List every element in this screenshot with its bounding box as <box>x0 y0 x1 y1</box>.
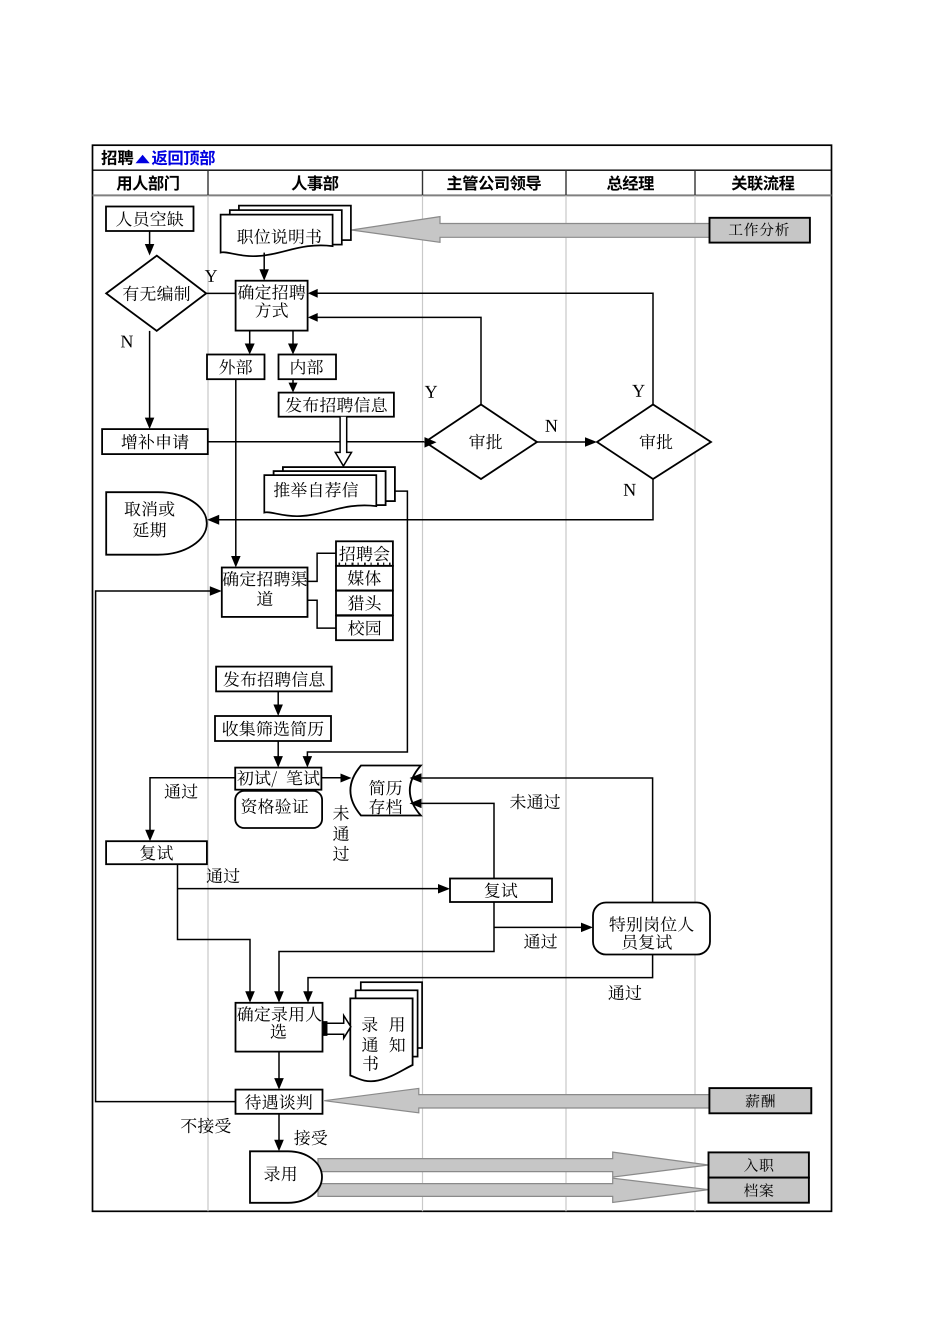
wire 审批1 N to 审批2 <box>537 441 586 443</box>
text 猎头 <box>348 595 381 610</box>
label 过 vertical <box>333 846 349 861</box>
document 推举自荐信 front page <box>264 475 376 516</box>
process box 确定录用人选 <box>236 1003 323 1052</box>
document 职位说明书 front page <box>221 215 333 257</box>
wire 有无编制 N to 增补申请 <box>149 331 151 419</box>
text 人员空缺 <box>116 211 183 227</box>
text 校园 <box>348 620 381 636</box>
decision diamond 审批 second <box>597 405 711 480</box>
text 媒体 <box>348 570 381 586</box>
wire 审批2 Y up and left to 确定招聘方式 <box>316 293 653 404</box>
wire 初试/笔试 to 简历存档 <box>321 777 341 779</box>
wire 职位说明书 to 确定招聘方式 <box>263 253 265 271</box>
channel box 媒体 <box>336 566 393 591</box>
arrowhead into 确定招聘方式 top <box>259 269 269 281</box>
wire 增补申请 to 审批1 <box>208 441 424 443</box>
wire 复试2 未通过 up to 简历存档 <box>420 803 494 878</box>
label N 3 <box>624 484 636 496</box>
text 初试/笔试 <box>237 770 319 787</box>
text 档案 <box>744 1183 773 1197</box>
decision diamond 审批 first <box>425 405 537 480</box>
arrowhead into 发布招聘信息 upper top <box>289 383 298 393</box>
text 方式 <box>255 302 287 318</box>
process box 增补申请 <box>102 429 208 454</box>
wire 有无编制 Y to 确定招聘方式 <box>206 292 235 294</box>
document stack 职位说明书 back page 1 <box>230 210 342 245</box>
gray box 薪酬 <box>709 1088 811 1113</box>
wire 复试2 通过 branch to 特别岗位人员复试 <box>494 926 582 928</box>
label N 1 <box>121 336 133 348</box>
text 录用通知书 char 通 <box>362 1037 378 1052</box>
process box 收集筛选简历 <box>215 716 331 741</box>
process box 外部 <box>207 355 265 380</box>
document stack 录用通知书 back page 1 <box>356 990 418 1056</box>
gray block arrow from 录用 to 档案 <box>318 1178 708 1202</box>
title text 招聘 <box>101 150 133 165</box>
arrowhead into 确定招聘方式 right edge upper <box>308 289 318 298</box>
gray box 入职 <box>709 1152 809 1177</box>
text 审批 first <box>469 434 502 450</box>
arrowhead into 确定录用人选 top 3 <box>303 991 313 1003</box>
process box 内部 <box>279 355 337 380</box>
delay shape 取消或延期 <box>106 492 207 555</box>
text 确定录用人 <box>237 1006 321 1022</box>
text 资格验证 <box>241 798 308 814</box>
channel box 校园 <box>336 616 393 641</box>
delay shape 录用 <box>250 1151 322 1203</box>
text 录用 <box>264 1166 296 1181</box>
text 简历 <box>369 780 402 796</box>
gray block arrow from 录用 to 入职 <box>318 1152 708 1177</box>
arrowhead into 取消或延期 right <box>207 515 219 525</box>
arrowhead into 待遇谈判 top <box>274 1078 284 1090</box>
document stack 推举自荐信 back page 1 <box>274 471 386 505</box>
arrowhead into 简历存档 right lower <box>410 799 422 809</box>
text 确定招聘渠 <box>223 571 307 587</box>
text 招聘会 <box>339 546 389 562</box>
text 取消或 <box>125 501 175 516</box>
arrowhead into 有无编制 top <box>145 244 155 256</box>
text 推举自荐信 <box>274 482 358 498</box>
stored-data shape 简历存档 <box>350 766 420 816</box>
label Y 3 <box>632 385 644 397</box>
process box 发布招聘信息 lower <box>216 667 332 692</box>
text 待遇谈判 <box>245 1094 312 1110</box>
arrowhead into 增补申请 top <box>145 418 155 430</box>
gray block arrow from 工作分析 to 职位说明书 <box>352 217 710 243</box>
label 通过 1 <box>165 784 198 799</box>
text 录用通知书 char 书 <box>363 1056 378 1072</box>
document stack 职位说明书 back page 2 <box>239 206 351 241</box>
label Y 2 <box>425 386 437 398</box>
arrowhead into 简历存档 left <box>341 774 352 783</box>
blue triangle link marker <box>136 155 150 164</box>
arrowhead into 简历存档 right upper <box>410 773 422 783</box>
text 发布招聘信息 lower <box>223 671 324 687</box>
gray block arrow from 薪酬 to 待遇谈判 <box>324 1088 709 1112</box>
label 通 vertical <box>333 826 349 841</box>
hollow arrow 确定录用人选 to 录用通知书 <box>323 1016 351 1039</box>
wire 特别岗位人员复试 通过 down to 确定录用人选 <box>308 955 653 994</box>
process box 确定招聘方式 <box>236 281 308 331</box>
text 录用通知书 char 录 <box>362 1017 377 1032</box>
header 关联流程 <box>732 175 795 191</box>
wire 发布招聘信息 lower to 收集筛选简历 <box>277 691 279 706</box>
text 增补申请 <box>122 434 189 450</box>
wire 确定录用人选 to 待遇谈判 <box>278 1052 280 1080</box>
wire 人员空缺 to 有无编制 <box>149 231 151 245</box>
text 有无编制 <box>123 286 190 302</box>
rounded box 资格验证 <box>235 791 322 828</box>
arrowhead into 特别岗位人员复试 left <box>581 923 593 933</box>
process box 人员空缺 <box>106 207 194 232</box>
arrowhead into 确定招聘渠道 top <box>231 556 241 568</box>
text 收集筛选简历 <box>223 721 324 737</box>
text 入职 <box>744 1158 773 1172</box>
arrowhead into 初试/笔试 top right <box>303 756 313 768</box>
header 主管公司领导 <box>447 175 541 191</box>
text 道 <box>257 591 273 606</box>
text 发布招聘信息 upper <box>286 397 387 413</box>
process box 初试/笔试 <box>235 768 321 790</box>
text 复试 left <box>140 845 173 860</box>
wire 确定招聘方式 to 内部 <box>292 331 294 345</box>
label 接受 <box>294 1130 327 1146</box>
rounded box 特别岗位人员复试 <box>593 903 710 955</box>
text 外部 <box>219 359 252 375</box>
wire bracket 确定招聘渠道 to 招聘会 <box>308 553 337 581</box>
header cell divider 3 <box>565 170 567 195</box>
header row bottom border <box>93 194 832 196</box>
wire 复试2 down to 确定录用人选 <box>279 902 494 993</box>
decision diamond 有无编制 <box>106 256 206 331</box>
wire 初试/笔试 通过 left down to 复试 <box>150 778 235 831</box>
title row bottom border <box>93 169 832 171</box>
gray box 工作分析 <box>710 218 810 243</box>
label 不接受 <box>181 1118 231 1134</box>
link text 返回顶部 <box>152 150 215 165</box>
arrowhead into 确定录用人选 top 2 <box>274 991 284 1003</box>
header cell divider 1 <box>207 170 209 195</box>
hollow arrow tail bar <box>323 1021 328 1035</box>
process box 发布招聘信息 upper <box>279 393 394 417</box>
wire 内部 to 发布招聘信息 upper <box>292 379 294 383</box>
arrowhead into 内部 top <box>288 344 298 355</box>
arrowhead into 审批1 left vertex <box>425 437 437 448</box>
arrowhead into 收集筛选简历 top <box>273 705 283 717</box>
label 通过 4 <box>608 985 641 1000</box>
text 审批 second <box>640 434 673 450</box>
label Y 1 <box>205 270 217 282</box>
text 延期 <box>133 522 166 537</box>
swimlane divider 4 <box>694 195 696 1211</box>
wire 复试 通过 branch to 复试2 <box>178 888 440 890</box>
label 通过 3 <box>524 934 557 949</box>
table outer border <box>93 145 832 1211</box>
text 存档 <box>369 799 402 815</box>
text 选 <box>271 1024 287 1039</box>
document stack 推举自荐信 back page 2 <box>283 467 395 501</box>
text 工作分析 <box>729 223 789 237</box>
text 员复试 <box>622 934 672 949</box>
text 内部 <box>291 359 323 375</box>
wire 特别岗位人员复试 未通过 up to 简历存档 <box>420 778 653 903</box>
wire 推举自荐信 right to down to 初试/笔试 <box>307 491 407 757</box>
wire 审批2 N down and left to 取消或延期 <box>218 479 653 520</box>
text 薪酬 <box>746 1094 775 1108</box>
swimlane divider 2 <box>422 195 424 1211</box>
text 职位说明书 <box>237 229 321 245</box>
gray box 档案 <box>709 1178 809 1203</box>
header 总经理 <box>607 175 654 190</box>
document stack 录用通知书 back page 2 <box>361 982 422 1048</box>
label 未通过 horizontal <box>510 794 560 809</box>
process box 待遇谈判 <box>236 1090 323 1114</box>
wire 待遇谈判 接受 to 录用 <box>278 1114 280 1142</box>
process box 复试 left <box>106 841 207 864</box>
wire bracket 确定招聘渠道 to 校园 <box>308 600 337 628</box>
text 特别岗位人 <box>609 916 693 932</box>
header cell divider 2 <box>422 170 424 195</box>
wire 外部 down to 确定招聘渠道 <box>235 379 237 557</box>
swimlane divider 3 <box>565 195 567 1211</box>
arrowhead into 确定招聘渠道 left <box>210 586 222 596</box>
wire 待遇谈判 不接受 left up to 确定招聘渠道 <box>96 591 236 1102</box>
process box 复试 middle <box>450 879 552 903</box>
arrowhead into 确定录用人选 top 1 <box>245 991 255 1003</box>
wire 复试 down right to 复试2 and 确定录用人选 <box>178 864 251 993</box>
arrowhead into 审批2 left vertex <box>585 437 597 447</box>
swimlane divider 1 <box>207 195 209 1211</box>
text 录用通知书 char 知 <box>389 1037 404 1052</box>
arrowhead into 复试 top <box>145 830 155 842</box>
label 未 vertical <box>333 805 349 820</box>
channel box 招聘会 <box>336 541 393 566</box>
wire 审批1 Y up and left to 确定招聘方式 <box>316 317 481 404</box>
arrowhead into 录用 top <box>274 1140 284 1152</box>
clipped hidden text fragment above 招聘会 box bottom border <box>339 563 341 566</box>
text 复试 middle <box>485 883 518 898</box>
wire 收集筛选简历 to 初试/笔试 <box>277 741 279 758</box>
arrowhead into 初试/笔试 top <box>273 756 283 768</box>
arrowhead into 确定招聘方式 right edge lower <box>308 313 318 322</box>
header 人事部 <box>292 175 339 190</box>
text 确定招聘 <box>238 284 305 300</box>
header 用人部门 <box>117 175 179 191</box>
text 录用通知书 char 用 <box>389 1017 404 1032</box>
arrowhead into 外部 top <box>245 344 255 355</box>
header cell divider 4 <box>694 170 696 195</box>
arrowhead into 复试2 left <box>438 884 450 894</box>
label 通过 2 <box>207 868 240 883</box>
process box 确定招聘渠道 <box>222 568 308 617</box>
label N 2 <box>545 420 557 432</box>
channel box 猎头 <box>336 591 393 616</box>
document 录用通知书 front page <box>350 998 412 1081</box>
wire 确定招聘方式 to 外部 <box>249 331 251 345</box>
hollow arrow 发布招聘信息 to 推举自荐信 <box>335 417 351 466</box>
